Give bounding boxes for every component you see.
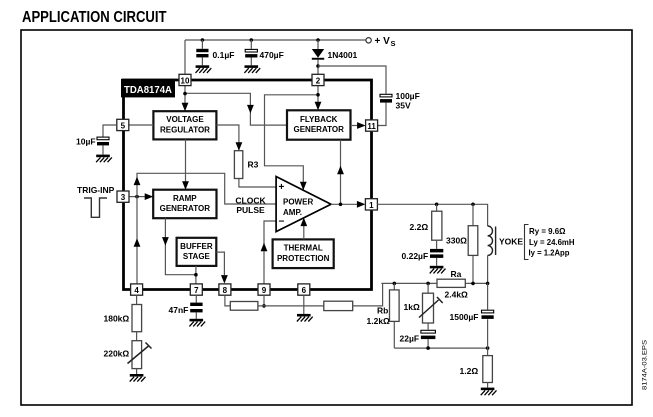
svg-text:GENERATOR: GENERATOR — [294, 125, 345, 134]
svg-text:GENERATOR: GENERATOR — [160, 204, 211, 213]
svg-text:35V: 35V — [396, 101, 411, 111]
resistor 220k variable — [128, 341, 152, 369]
wire pin9 to power amp minus input — [264, 221, 276, 284]
resistor 1k variable — [419, 293, 443, 323]
ground under 10uF — [96, 155, 112, 163]
svg-text:TDA8174A: TDA8174A — [124, 85, 173, 96]
wire pin5 to voltage regulator — [129, 124, 154, 126]
svg-text:1500µF: 1500µF — [450, 312, 479, 322]
junction dot diode cathode node — [316, 64, 320, 68]
pin 5 — [117, 119, 129, 130]
svg-text:2.4kΩ: 2.4kΩ — [445, 290, 469, 300]
IC TDA8174A outline — [124, 80, 372, 290]
wire 1.2ohm to ground — [487, 383, 489, 388]
junction dot rail at 0.1uF — [201, 38, 205, 42]
yoke spec bracket — [525, 225, 529, 260]
junction dot 330ohm branch — [471, 203, 475, 207]
resistor 330ohm — [468, 226, 478, 256]
resistor 1.2ohm — [483, 356, 493, 383]
trigger pulse waveform symbol — [84, 198, 107, 217]
wire diode node to 100uF and pin 11 — [318, 66, 386, 126]
wire +Vs supply rail — [185, 40, 366, 75]
wire voltage regulator to ramp generator — [185, 139, 187, 189]
arrow down on pin10 branch — [247, 105, 254, 114]
wire output bottom rail — [381, 282, 487, 284]
junction dot 22uF bottom — [426, 346, 430, 350]
svg-text:1.2kΩ: 1.2kΩ — [367, 316, 391, 326]
svg-text:−: − — [279, 216, 285, 227]
wire pin1 to yoke branch rail — [377, 204, 487, 226]
svg-text:1.2Ω: 1.2Ω — [460, 366, 479, 376]
wire yoke to output bottom rail — [487, 255, 489, 283]
svg-text:100µF: 100µF — [396, 91, 420, 101]
capacitor 22uF electrolytic — [421, 330, 436, 339]
resistor R3 — [234, 151, 242, 179]
junction dot under pin 2 — [316, 93, 320, 97]
wire ramp generator to buffer node — [165, 218, 196, 275]
label TDA8174A black tab — [121, 79, 175, 98]
wire 470uF leads — [250, 40, 252, 65]
svg-text:6: 6 — [302, 286, 307, 295]
svg-text:180kΩ: 180kΩ — [104, 314, 130, 324]
wire 1500uF node to 1.2ohm — [487, 348, 489, 356]
block BUFFER STAGE — [177, 238, 217, 266]
wire to 2.2ohm — [436, 204, 438, 211]
pin 8 — [219, 284, 231, 295]
svg-text:CLOCK: CLOCK — [235, 195, 266, 205]
junction dot 2.2ohm branch — [435, 203, 439, 207]
svg-text:10µF: 10µF — [76, 137, 96, 147]
svg-text:POWER: POWER — [283, 197, 313, 206]
svg-text:YOKE: YOKE — [499, 237, 523, 247]
wire pin8 to feedback resistor — [225, 295, 230, 306]
arrow up on flyback feedback — [337, 166, 344, 175]
resistor 180k — [132, 305, 142, 332]
svg-text:PROTECTION: PROTECTION — [277, 254, 330, 263]
label 100uF 35V — [396, 91, 420, 111]
svg-text:2.2Ω: 2.2Ω — [410, 222, 429, 232]
svg-text:S: S — [391, 39, 396, 48]
wire power amp output to pin1 — [331, 203, 358, 205]
svg-text:7: 7 — [194, 286, 199, 295]
arrow up into power amp bottom edge — [300, 218, 307, 227]
pin 7 — [190, 284, 202, 295]
svg-text:STAGE: STAGE — [183, 252, 211, 261]
wire 220k to ground — [136, 369, 138, 374]
pin 2 — [312, 74, 324, 85]
pin 3 — [117, 191, 129, 202]
ground under 0.22uF — [430, 266, 446, 274]
svg-text:FLYBACK: FLYBACK — [300, 115, 338, 124]
svg-text:Ry = 9.6Ω: Ry = 9.6Ω — [529, 226, 566, 236]
capacitor 47nF — [190, 303, 202, 313]
svg-text:Rb: Rb — [377, 306, 388, 316]
wire thermal protection to power amp — [303, 219, 305, 239]
arrow into flyback generator top — [315, 102, 322, 111]
wire pin4 to 180k — [136, 295, 138, 304]
wire pin2 internal node — [265, 86, 319, 190]
resistor 2.2ohm — [432, 211, 442, 240]
arrow up on pin9 riser — [261, 243, 268, 252]
ground under 470uF — [244, 65, 260, 73]
svg-text:5: 5 — [121, 122, 126, 131]
svg-text:22µF: 22µF — [400, 334, 420, 344]
arrow down on ramp output — [162, 237, 169, 246]
wire output node to flyback generator — [340, 140, 342, 205]
wire flyback generator to pin11 — [351, 125, 359, 127]
arrow into pin11 — [357, 122, 366, 129]
block THERMAL PROTECTION — [273, 239, 334, 268]
ground under 1.2ohm — [481, 388, 497, 396]
capacitor 0.22uF — [430, 249, 443, 258]
junction dot 330ohm bottom — [471, 282, 475, 286]
arrow into pin1 — [357, 201, 366, 208]
arrow into voltage regulator top — [182, 103, 189, 112]
arrow up on pin4 riser — [134, 238, 141, 247]
arrow into R3 top — [236, 142, 243, 151]
junction dot under pin 10 — [183, 92, 187, 96]
svg-text:VOLTAGE: VOLTAGE — [166, 115, 204, 124]
wire 47nF to ground — [195, 312, 197, 318]
wire voltage regulator to R3 — [216, 125, 275, 187]
svg-text:9: 9 — [262, 286, 267, 295]
wire pin4 up through pin3 node to clock pulse input — [137, 173, 276, 284]
pin 9 — [258, 284, 270, 295]
wire pin9 to feedback node — [263, 295, 265, 306]
ground under pin6 — [297, 314, 313, 322]
svg-text:0.22µF: 0.22µF — [402, 251, 429, 261]
junction dot power amp output — [339, 203, 343, 207]
svg-text:470µF: 470µF — [260, 50, 284, 60]
svg-text:3: 3 — [121, 193, 126, 202]
capacitor 10uF electrolytic — [97, 137, 109, 145]
svg-text:AMP.: AMP. — [283, 208, 302, 217]
block FLYBACK GENERATOR — [287, 110, 351, 139]
junction dot Rb top — [393, 282, 397, 286]
svg-text:REGULATOR: REGULATOR — [160, 125, 210, 134]
wire buffer stage to pin7 — [195, 266, 197, 284]
capacitor 0.1uF — [196, 49, 208, 58]
wire pin10 internal node — [185, 86, 286, 126]
svg-text:2: 2 — [316, 77, 321, 86]
svg-text:1: 1 — [369, 201, 374, 210]
ground under 220k — [130, 374, 146, 382]
svg-text:4: 4 — [134, 286, 139, 295]
wire feedback resistor to output node riser — [353, 283, 383, 306]
wire 0.1uF leads — [201, 40, 203, 65]
wire pin5 to 10uF — [103, 125, 117, 137]
svg-text:1N4001: 1N4001 — [328, 50, 358, 60]
wire pin7 to 47nF — [195, 295, 197, 302]
arrow into ramp generator top — [182, 181, 189, 190]
junction dot feedback node under pin9 — [262, 304, 266, 308]
svg-text:+: + — [279, 182, 285, 193]
block RAMP GENERATOR — [153, 190, 216, 219]
wire pin3 node to ramp generator — [129, 196, 145, 198]
label + Vs — [375, 36, 396, 48]
pin 10 — [179, 74, 191, 85]
diode 1N4001 — [312, 49, 324, 60]
inductor YOKE coil — [488, 226, 496, 255]
pin 4 — [131, 284, 143, 295]
wire pin6 to ground — [303, 295, 305, 314]
ground under 47nF — [189, 319, 205, 327]
svg-text:1kΩ: 1kΩ — [404, 302, 420, 312]
resistor Rb — [390, 290, 400, 322]
resistor Ra — [437, 279, 465, 287]
svg-text:Ly = 24.6mH: Ly = 24.6mH — [529, 237, 575, 247]
resistor pin8 feedback — [230, 302, 258, 311]
resistor feedback to Rb node — [324, 301, 353, 310]
junction dot rail at diode — [316, 38, 320, 42]
svg-text:8: 8 — [223, 286, 228, 295]
wire 0.22uF to ground — [436, 258, 438, 266]
wire 22uF to bottom rail — [427, 339, 429, 348]
block VOLTAGE REGULATOR — [153, 111, 216, 139]
junction dot bottom rail right — [486, 346, 490, 350]
op-amp POWER AMP triangle — [276, 177, 331, 232]
wire bottom return rail — [394, 347, 487, 349]
wire buffer stage to pin8 — [216, 252, 224, 275]
pin 11 — [366, 120, 378, 131]
wire feedback node to second resistor — [258, 305, 324, 307]
svg-text:47nF: 47nF — [169, 305, 189, 315]
svg-text:TRIG-INP: TRIG-INP — [77, 185, 115, 195]
svg-text:0.1µF: 0.1µF — [213, 50, 235, 60]
arrow into power amp top edge — [300, 182, 307, 191]
junction dot buffer output node — [194, 273, 198, 277]
pin 1 — [365, 199, 377, 210]
node Vs terminal circle — [366, 38, 371, 43]
arrow up above pin3 node — [134, 177, 141, 186]
svg-text:Ra: Ra — [451, 269, 462, 279]
junction dot pin3 node — [135, 195, 139, 199]
arrow into ramp generator left — [145, 193, 154, 200]
wire 10uF to ground — [102, 145, 104, 154]
ground under 0.1uF — [196, 65, 212, 73]
svg-text:RAMP: RAMP — [173, 194, 197, 203]
svg-text:11: 11 — [367, 122, 376, 131]
pin 6 — [298, 284, 310, 295]
wire 2.2ohm to 0.22uF — [436, 240, 438, 249]
junction dot yoke bottom node — [486, 282, 490, 286]
label CLOCK PULSE — [235, 195, 266, 215]
svg-text:Iy = 1.2App: Iy = 1.2App — [529, 248, 570, 258]
svg-text:10: 10 — [181, 77, 190, 86]
svg-text:APPLICATION CIRCUIT: APPLICATION CIRCUIT — [22, 9, 167, 26]
capacitor 1500uF electrolytic — [482, 310, 494, 319]
svg-text:330Ω: 330Ω — [446, 236, 467, 246]
wire diode leads — [317, 40, 319, 75]
wire to 330ohm — [472, 204, 474, 283]
svg-text:8174A-03.EPS: 8174A-03.EPS — [642, 340, 649, 390]
svg-text:R3: R3 — [248, 160, 259, 170]
svg-text:220kΩ: 220kΩ — [104, 349, 130, 359]
wire 1500uF leads — [487, 283, 489, 348]
wire 180k to 220k — [136, 332, 138, 341]
junction dot 1k top — [426, 282, 430, 286]
svg-text:THERMAL: THERMAL — [284, 244, 323, 253]
arrow into pin8 — [221, 275, 228, 284]
svg-text:BUFFER: BUFFER — [180, 242, 213, 251]
svg-text:PULSE: PULSE — [236, 205, 265, 215]
capacitor 470uF electrolytic — [245, 49, 257, 57]
junction dot rail at 470uF — [250, 38, 254, 42]
wire 1k leads — [427, 283, 429, 329]
wire Rb leads — [393, 283, 395, 348]
svg-text:+ V: + V — [375, 36, 391, 47]
capacitor 100uF electrolytic — [380, 94, 392, 102]
